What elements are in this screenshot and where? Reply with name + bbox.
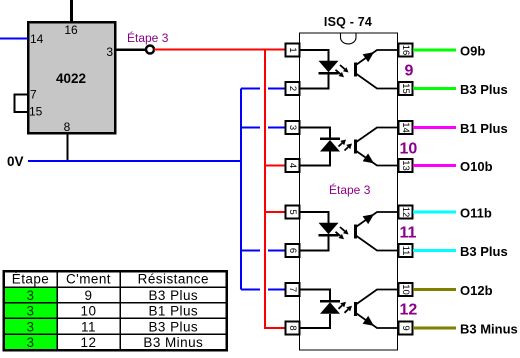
opto chB emitter to pin 13 <box>356 151 399 166</box>
svg-text:B3 Plus: B3 Plus <box>148 288 198 303</box>
opto chA LED cathode wire (pin 2) <box>300 73 329 88</box>
opto chD LED (cathode up) <box>320 301 340 314</box>
wire red vertical bus <box>264 50 266 329</box>
svg-text:3: 3 <box>106 45 113 59</box>
node Étape 3 (open circle) <box>146 46 154 54</box>
opto chC light arrows <box>336 227 349 239</box>
wire O9b <box>413 49 456 52</box>
opto chC phototransistor base <box>354 224 357 238</box>
svg-text:5: 5 <box>287 209 298 214</box>
wire U1 pin 14 blue from left edge <box>0 38 28 40</box>
opto chB phototransistor base <box>354 140 357 154</box>
opto chB light arrows <box>339 140 353 151</box>
opto chB LED anode wire (pin 4) <box>300 152 331 166</box>
svg-text:16: 16 <box>400 45 411 56</box>
wire red to U2 pin 8 <box>264 327 285 329</box>
wire blue to U2 pin 3 (gap at red crossing) <box>241 127 285 129</box>
wire O10b <box>413 164 456 167</box>
svg-text:2: 2 <box>287 86 298 91</box>
U2 pin 1 box <box>286 44 300 57</box>
svg-text:B1 Plus: B1 Plus <box>148 304 198 319</box>
U2 pin 5 box <box>286 206 300 219</box>
svg-text:3: 3 <box>27 335 35 350</box>
svg-text:B3 Minus: B3 Minus <box>460 322 518 337</box>
opto chC LED anode wire (pin 5) <box>300 212 329 223</box>
U2 pin 7 box <box>286 283 300 296</box>
svg-text:12: 12 <box>400 207 411 218</box>
svg-text:0V: 0V <box>7 154 24 169</box>
opto chA emitter to pin 16 <box>356 50 399 65</box>
svg-text:B3 Minus: B3 Minus <box>143 335 203 350</box>
svg-text:O10b: O10b <box>460 159 493 174</box>
wire blue to U2 pin 6 (gap at red crossing) <box>241 250 285 252</box>
svg-text:1: 1 <box>287 47 298 52</box>
svg-text:3: 3 <box>27 304 35 319</box>
svg-text:3: 3 <box>27 319 35 334</box>
U2 pin 8 box <box>286 322 300 335</box>
opto chA light arrows <box>336 65 349 77</box>
svg-text:B3 Plus: B3 Plus <box>148 319 198 334</box>
svg-text:O12b: O12b <box>460 283 493 298</box>
U2 pin 15 box <box>399 82 413 95</box>
table green Étape cells <box>5 287 56 350</box>
svg-text:11: 11 <box>81 319 96 334</box>
table row 1: 3 | 9 | B3 Plus <box>27 288 199 303</box>
opto chA LED anode wire (pin 1) <box>300 50 329 61</box>
opto chA phototransistor base <box>354 62 357 76</box>
U2 pin 16 box <box>399 44 413 57</box>
wire blue to U2 pin 7 (gap at red crossing) <box>241 289 285 291</box>
wire U1 pin 8 to 0V rail <box>67 133 69 161</box>
wire O12b <box>413 288 456 291</box>
opto chD light arrows <box>339 302 353 313</box>
svg-text:4022: 4022 <box>56 71 86 86</box>
svg-text:Étape: Étape <box>12 272 50 287</box>
wire red to U2 pin 4 <box>264 165 285 167</box>
U2 pin-1 orientation notch <box>341 34 357 44</box>
opto chD collector to pin 10 <box>356 290 399 305</box>
opto chC LED (cathode down) <box>319 223 339 236</box>
svg-text:16: 16 <box>64 23 78 37</box>
svg-text:14: 14 <box>400 122 411 133</box>
svg-text:10: 10 <box>400 284 411 295</box>
opto chA LED (cathode down) <box>319 61 339 74</box>
svg-text:9: 9 <box>400 325 411 330</box>
svg-text:15: 15 <box>29 105 43 119</box>
U2 pin 14 box <box>399 121 413 134</box>
opto chB LED (cathode up) <box>320 139 340 152</box>
opto chC collector to pin 11 <box>356 235 399 250</box>
opto chB LED cathode wire (pin 3) <box>300 128 331 139</box>
opto chD emitter to pin 9 <box>356 313 399 328</box>
svg-text:B1 Plus: B1 Plus <box>460 121 508 136</box>
opto chD LED cathode wire (pin 7) <box>300 290 331 302</box>
svg-text:10: 10 <box>81 304 97 319</box>
wire 0V blue rail horizontal <box>28 160 242 162</box>
svg-text:O11b: O11b <box>460 206 492 221</box>
U2 pin 9 box <box>399 322 413 335</box>
U2 pin 12 box <box>399 206 413 219</box>
wire red net Étape3 to U2 pin 1 <box>154 49 285 51</box>
IC U2 ISQ-74 optocoupler body <box>300 33 398 350</box>
opto chA collector to pin 15 <box>356 73 399 88</box>
svg-text:6: 6 <box>287 248 298 253</box>
wire red to U2 pin 5 <box>264 211 285 213</box>
wire U1 pin 16 to top edge <box>70 0 73 22</box>
table row 3: 3 | 11 | B3 Plus <box>27 319 199 334</box>
table row 4: 3 | 12 | B3 Minus <box>27 335 204 350</box>
svg-text:12: 12 <box>400 302 418 319</box>
svg-text:15: 15 <box>400 83 411 94</box>
opto chC emitter to pin 12 <box>356 212 399 227</box>
U2 pin 3 box <box>286 121 300 134</box>
opto chD phototransistor base <box>354 302 357 316</box>
svg-text:14: 14 <box>30 32 44 46</box>
opto chC LED cathode wire (pin 6) <box>300 235 329 250</box>
table outer frame <box>4 271 227 350</box>
U2 pin 11 box <box>399 244 413 257</box>
svg-text:B3 Plus: B3 Plus <box>460 82 508 97</box>
wire B3 Minus <box>413 327 456 330</box>
svg-text:ISQ - 74: ISQ - 74 <box>324 15 372 29</box>
wire B3 Plus (pin 15) <box>413 87 456 90</box>
svg-text:12: 12 <box>81 335 97 350</box>
svg-text:11: 11 <box>400 225 417 242</box>
wire U1 pin7-pin15 feedback loop <box>15 95 29 113</box>
svg-text:Étape 3: Étape 3 <box>127 30 169 45</box>
svg-text:8: 8 <box>64 120 71 134</box>
svg-text:3: 3 <box>27 288 35 303</box>
svg-text:3: 3 <box>287 125 298 130</box>
svg-text:7: 7 <box>30 88 37 102</box>
wire O11b <box>413 211 456 214</box>
svg-text:9: 9 <box>405 63 414 80</box>
wire B1 Plus <box>413 126 456 129</box>
svg-text:10: 10 <box>400 141 418 158</box>
svg-text:8: 8 <box>287 325 298 330</box>
table grid lines <box>5 271 226 350</box>
svg-text:7: 7 <box>287 287 298 292</box>
svg-text:B3 Plus: B3 Plus <box>460 244 508 259</box>
svg-text:O9b: O9b <box>460 44 485 59</box>
IC U1 4022 counter body <box>28 22 115 133</box>
wire B3 Plus (pin 11) <box>413 249 456 252</box>
U2 pin 4 box <box>286 159 300 172</box>
svg-text:11: 11 <box>400 246 411 256</box>
wire U1 pin 3 black to node <box>115 48 146 51</box>
wire blue vertical bus (0V) <box>240 89 242 290</box>
svg-text:4: 4 <box>287 163 298 168</box>
U2 pin 13 box <box>399 159 413 172</box>
U2 pin 10 box <box>399 283 413 296</box>
opto chB collector to pin 14 <box>356 128 399 143</box>
U2 pin 2 box <box>286 82 300 95</box>
wire blue to U2 pin 2 (gap at red crossing) <box>241 88 285 90</box>
table row 2: 3 | 10 | B1 Plus <box>27 304 199 319</box>
svg-text:Étape 3: Étape 3 <box>329 182 371 197</box>
U2 pin 6 box <box>286 244 300 257</box>
opto chD LED anode wire (pin 8) <box>300 314 331 328</box>
svg-text:9: 9 <box>85 288 93 303</box>
svg-text:13: 13 <box>400 160 411 171</box>
svg-text:C'ment: C'ment <box>66 272 111 287</box>
svg-text:Résistance: Résistance <box>138 272 209 287</box>
